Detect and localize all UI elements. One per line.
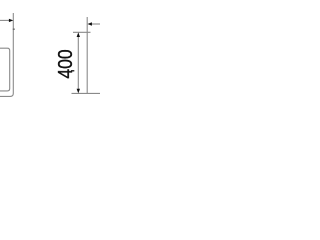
bottom extension line xyxy=(72,92,101,94)
up arrowhead xyxy=(77,32,80,37)
panel outer right edge (rounded bottom-right corner) xyxy=(0,13,13,96)
right horizontal dimension line xyxy=(92,23,101,25)
inner part outline (top-right and bottom-right rounded corners) xyxy=(0,48,10,91)
vertical dimension line 400 xyxy=(77,34,79,92)
right-side left-pointing arrowhead xyxy=(88,22,92,25)
svg-text:400: 400 xyxy=(55,49,77,78)
tail of digit 4 stem xyxy=(71,70,74,72)
top extension line xyxy=(73,31,91,33)
right panel edge vertical line xyxy=(86,17,88,93)
left arrowhead xyxy=(9,19,13,22)
junction stub xyxy=(13,28,15,30)
left dimension line xyxy=(0,19,10,21)
down arrowhead xyxy=(77,89,80,94)
